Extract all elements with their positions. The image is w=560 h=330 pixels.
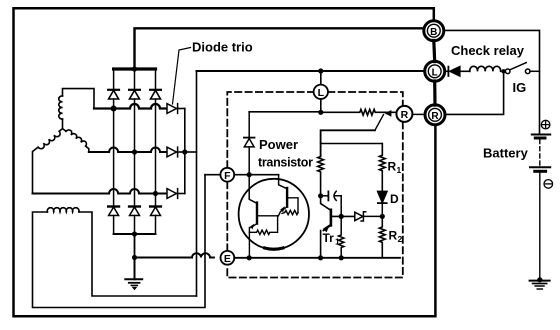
transistor output A emitter xyxy=(249,224,257,258)
diode trio 3 xyxy=(167,189,185,199)
wire field right leg xyxy=(79,212,197,296)
wire wiper row xyxy=(321,130,375,156)
transistor output A base wire xyxy=(257,215,278,217)
transistor driver B base wire xyxy=(287,198,298,213)
diode rectifier upper 1 xyxy=(108,90,119,99)
node F diode junction xyxy=(247,172,252,177)
svg-text:2: 2 xyxy=(398,234,403,244)
wire phase A row to diode trio 1 xyxy=(94,104,167,109)
terminal F xyxy=(220,168,234,182)
svg-text:Diode trio: Diode trio xyxy=(192,40,253,55)
wire phase B vertical xyxy=(134,99,136,206)
svg-text:B: B xyxy=(430,27,437,38)
node zener junction xyxy=(380,214,385,219)
power transistor circle xyxy=(239,179,309,249)
diode flyback field xyxy=(244,112,255,175)
wire divider branch to R1 xyxy=(321,144,383,156)
wire phase C row to diode trio 3 xyxy=(33,189,168,194)
minus symbol xyxy=(544,180,553,189)
node Tr1 top junction xyxy=(318,193,323,198)
node phase C junction xyxy=(153,191,158,196)
plus symbol xyxy=(541,120,550,129)
svg-text:D: D xyxy=(390,192,399,206)
diode rectifier lower 3 xyxy=(150,207,161,235)
diode zener xyxy=(355,212,383,221)
terminal B alternator xyxy=(424,21,444,41)
wire flyback to L node xyxy=(249,111,321,114)
terminal R regulator xyxy=(396,106,412,122)
terminal E xyxy=(221,251,235,265)
transistor driver B base bar xyxy=(286,188,288,207)
wire phase A vertical xyxy=(113,99,115,206)
transistor driver B emitter xyxy=(278,206,287,216)
diode rectifier upper 3 xyxy=(150,90,161,99)
wire stator Y center xyxy=(59,119,66,131)
node lower bus junction xyxy=(132,231,137,236)
svg-text:F: F xyxy=(224,170,231,182)
wire phase C vertical xyxy=(155,99,157,206)
node phase B junction xyxy=(132,149,137,154)
wire field left leg xyxy=(33,175,206,308)
wire B+ top row xyxy=(135,28,425,69)
svg-text:E: E xyxy=(224,253,231,265)
resistor shunt B xyxy=(282,210,298,214)
node phase A junction xyxy=(111,106,117,112)
resistor divider feed xyxy=(318,157,324,196)
battery xyxy=(530,135,550,280)
node E row junction 3 xyxy=(339,255,344,260)
transistor output A collector xyxy=(249,175,257,204)
terminal L regulator xyxy=(320,71,322,85)
switch IG contacts xyxy=(504,63,540,74)
svg-text:Power: Power xyxy=(259,137,298,152)
wire left winding leg xyxy=(33,147,39,193)
resistor R2 xyxy=(379,216,385,257)
wire B to battery xyxy=(444,30,540,134)
svg-text:R: R xyxy=(388,160,397,174)
diode trio 2 xyxy=(167,147,185,157)
svg-text:Check relay: Check relay xyxy=(451,43,525,58)
regulator dashed box xyxy=(227,92,402,278)
stator winding left xyxy=(38,131,60,148)
node Tr1 base junction xyxy=(339,214,344,219)
wire diode stubs to bus xyxy=(114,69,156,89)
stator winding top xyxy=(59,96,63,119)
wire diode trio output vertical xyxy=(184,109,186,194)
svg-text:R: R xyxy=(431,111,439,122)
stator winding right xyxy=(66,130,86,146)
svg-text:R: R xyxy=(401,109,409,121)
pointer diode trio xyxy=(173,48,191,105)
diode trio 1 xyxy=(167,104,185,114)
diode rectifier lower 1 xyxy=(108,207,119,235)
diode check relay xyxy=(444,67,469,76)
wire top winding to phase A xyxy=(63,89,95,109)
node trio output junction xyxy=(182,149,187,154)
wire R small to R big xyxy=(412,113,425,115)
resistor R1 xyxy=(379,144,385,192)
wire F row right xyxy=(234,174,278,176)
transistor driver B collector xyxy=(279,175,288,189)
wire F row left xyxy=(205,174,220,176)
svg-text:Battery: Battery xyxy=(483,146,529,161)
node E row junction 1 xyxy=(247,255,252,260)
terminal R alternator xyxy=(425,105,445,125)
node L stub junction xyxy=(318,68,323,73)
ground alternator xyxy=(125,258,142,291)
transistor output A base bar xyxy=(256,203,258,224)
terminal L alternator xyxy=(425,61,445,81)
node L sense junction xyxy=(318,110,323,115)
svg-text:L: L xyxy=(432,67,438,78)
diode D xyxy=(378,191,387,216)
wire B-L-R vertical xyxy=(434,40,435,105)
rotor field coil xyxy=(47,208,79,212)
wire coil to R terminal xyxy=(445,71,504,114)
node E row junction 2 xyxy=(318,255,323,260)
transistor Tr1 xyxy=(321,196,331,211)
wire E row inside regulator xyxy=(234,257,400,259)
ground battery xyxy=(530,277,550,289)
resistor Tr1 base xyxy=(339,216,344,257)
resistor shunt A xyxy=(249,216,277,235)
diode rectifier lower 2 xyxy=(129,207,140,235)
wire trio feed to L net xyxy=(185,151,197,153)
capacitor feedback xyxy=(321,191,342,216)
wiper arrow xyxy=(375,110,392,130)
wire lower bus bar xyxy=(114,233,156,235)
node relay coil junction xyxy=(501,69,505,73)
relay coil xyxy=(470,66,501,71)
wire L net vertical xyxy=(196,71,198,296)
diode rectifier upper 2 xyxy=(129,90,140,99)
wire phase B row to diode trio 2 xyxy=(89,148,167,153)
wire frame loop (top/left/bottom border wire) xyxy=(14,8,436,316)
svg-text:L: L xyxy=(318,87,325,99)
svg-text:transistor: transistor xyxy=(258,156,313,170)
svg-text:IG: IG xyxy=(513,80,527,95)
wire L net top row xyxy=(197,70,425,72)
wire right winding leg xyxy=(86,146,89,152)
wire E row with hops xyxy=(135,253,214,257)
node bus-riser junction xyxy=(132,66,137,71)
node ground junction xyxy=(132,255,137,260)
svg-text:1: 1 xyxy=(397,165,402,175)
svg-text:Tr: Tr xyxy=(323,231,335,245)
resistor pot L to R xyxy=(321,109,397,115)
wire to ground node xyxy=(134,234,136,258)
wire B+ bus bar xyxy=(114,67,156,70)
svg-text:R: R xyxy=(389,229,398,243)
